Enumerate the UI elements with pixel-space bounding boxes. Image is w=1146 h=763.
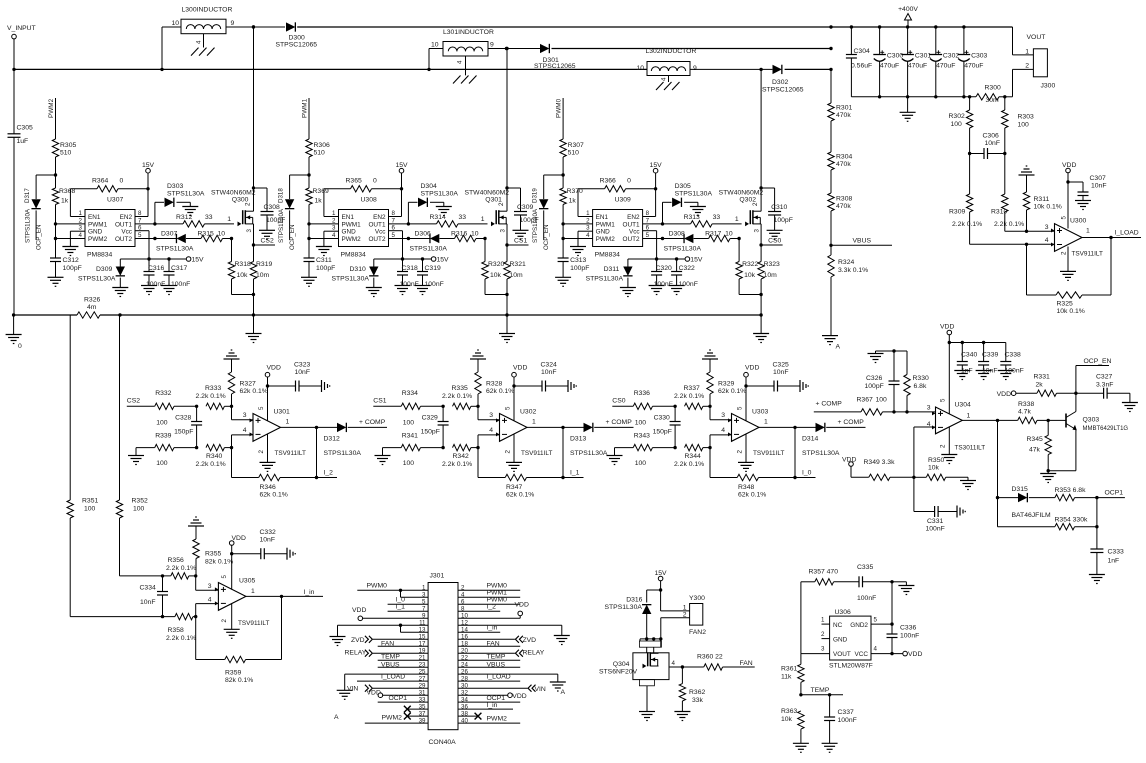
svg-text:100nF: 100nF — [838, 717, 857, 724]
svg-text:C325: C325 — [773, 362, 789, 369]
svg-text:3: 3 — [1045, 224, 1049, 231]
svg-text:FAN: FAN — [740, 660, 753, 667]
resistor R368 1k — [52, 188, 75, 258]
svg-text:4: 4 — [489, 427, 493, 434]
capacitor C308 100pF — [254, 188, 286, 239]
svg-text:+ COMP: + COMP — [359, 419, 386, 426]
resistor R305 510 — [52, 139, 76, 188]
svg-text:470uF: 470uF — [964, 62, 983, 69]
svg-text:C333: C333 — [1108, 549, 1124, 556]
svg-text:R354 330k: R354 330k — [1055, 517, 1088, 524]
capacitor C338 100nF — [998, 343, 1024, 380]
resistor R370 1k — [560, 188, 583, 258]
diode D308 — [643, 231, 702, 253]
svg-text:VIN: VIN — [347, 686, 358, 693]
svg-text:33: 33 — [713, 214, 721, 221]
svg-text:3: 3 — [332, 225, 336, 232]
svg-text:R311: R311 — [1034, 196, 1050, 203]
resistor R333 2.2k — [196, 385, 234, 410]
svg-text:VCC: VCC — [855, 651, 869, 658]
svg-text:150pF: 150pF — [174, 429, 193, 436]
wire VDD cap rail — [949, 341, 1006, 344]
pin numbers left — [419, 585, 426, 725]
svg-text:STPS1L30A: STPS1L30A — [167, 191, 205, 198]
svg-text:Vcc: Vcc — [629, 229, 640, 236]
svg-text:4.7k: 4.7k — [1018, 409, 1031, 416]
inductor L300 — [162, 7, 254, 70]
power VDD U300 — [1062, 162, 1076, 229]
power VDD stage — [744, 365, 760, 421]
ground C326 — [868, 349, 908, 362]
wire pin23 VBUS — [378, 662, 428, 669]
capacitor C328 150pF — [174, 405, 202, 450]
diode D318 OCP_EN — [277, 175, 309, 250]
svg-text:10: 10 — [431, 42, 439, 49]
svg-text:RELAY: RELAY — [345, 650, 367, 657]
resistor R334 100 — [401, 390, 443, 427]
net CS1 input — [373, 398, 401, 407]
svg-text:C326: C326 — [866, 375, 882, 382]
svg-text:100pF: 100pF — [570, 265, 589, 272]
ground pin3 — [62, 231, 85, 255]
svg-text:10nF: 10nF — [260, 537, 276, 544]
svg-text:62k 0.1%: 62k 0.1% — [718, 388, 746, 395]
resistor R323 10m — [758, 245, 780, 317]
svg-text:STPS1L30A: STPS1L30A — [332, 276, 370, 283]
svg-text:L300INDUCTOR: L300INDUCTOR — [182, 7, 233, 14]
svg-text:R361: R361 — [781, 666, 797, 673]
svg-text:VDD: VDD — [908, 651, 922, 658]
port RELAY left — [345, 650, 429, 657]
wire pin5 I_0 — [388, 597, 429, 605]
svg-text:3: 3 — [499, 229, 506, 233]
svg-text:R301: R301 — [836, 105, 852, 112]
svg-text:OCP_EN: OCP_EN — [36, 225, 43, 250]
svg-text:U307: U307 — [107, 197, 123, 204]
svg-text:A: A — [561, 689, 566, 696]
svg-text:VDD: VDD — [267, 365, 281, 372]
svg-text:10k: 10k — [928, 465, 940, 472]
svg-text:R338: R338 — [1018, 401, 1034, 408]
svg-text:VIN: VIN — [535, 686, 546, 693]
svg-text:2: 2 — [498, 202, 505, 206]
power VDD pin31 — [367, 689, 429, 697]
svg-text:C309: C309 — [517, 204, 533, 211]
wire +input — [232, 406, 254, 420]
svg-text:62k 0.1%: 62k 0.1% — [260, 492, 288, 499]
svg-text:CS1: CS1 — [514, 238, 527, 245]
svg-text:C317: C317 — [171, 265, 187, 272]
svg-text:R344: R344 — [685, 453, 701, 460]
svg-text:1: 1 — [251, 588, 255, 595]
capacitor C334 10nF — [140, 574, 169, 618]
svg-text:100nF: 100nF — [900, 633, 919, 640]
node OCP1 — [1097, 490, 1125, 498]
svg-text:R315: R315 — [198, 231, 214, 238]
capacitor C309 100pF — [507, 188, 539, 239]
capacitor C329 150pF — [421, 405, 449, 450]
svg-text:R316: R316 — [451, 231, 467, 238]
svg-text:33: 33 — [459, 214, 467, 221]
svg-text:5: 5 — [392, 232, 396, 239]
transistor Q303 MMBT6429LT1G — [1048, 393, 1128, 471]
svg-text:1: 1 — [481, 216, 485, 223]
svg-text:470uF: 470uF — [908, 62, 927, 69]
svg-text:R306: R306 — [314, 142, 330, 149]
wire pin18 FAN — [458, 641, 520, 648]
capacitor C317 100nF — [161, 259, 190, 295]
svg-text:U304: U304 — [955, 402, 971, 409]
ground U305 — [224, 603, 240, 638]
svg-text:PWM2: PWM2 — [382, 715, 403, 722]
svg-text:C339: C339 — [982, 352, 998, 359]
svg-text:2: 2 — [258, 450, 265, 454]
power 15V — [395, 162, 408, 217]
wire drain phase node — [252, 25, 255, 211]
resistor R358 2.2k — [166, 613, 197, 642]
wire pin28 I_LOAD — [458, 674, 520, 682]
wire pin39 PWM2 — [365, 715, 428, 724]
svg-text:10: 10 — [171, 20, 179, 27]
svg-text:A: A — [334, 714, 339, 721]
svg-text:510: 510 — [60, 150, 72, 157]
svg-text:2: 2 — [940, 444, 947, 448]
svg-text:2: 2 — [586, 217, 590, 224]
svg-text:9: 9 — [231, 20, 235, 27]
svg-text:R303: R303 — [1018, 114, 1034, 121]
svg-text:STPS1L30A: STPS1L30A — [605, 604, 643, 611]
power VDD stage — [265, 365, 281, 421]
resistor R348 62k feedback — [710, 426, 797, 499]
net + COMP input — [814, 401, 861, 412]
svg-text:U308: U308 — [361, 197, 377, 204]
svg-text:2: 2 — [245, 202, 252, 206]
wire pin6 Vcc — [643, 231, 657, 259]
svg-text:R347: R347 — [506, 484, 522, 491]
ground U304 — [941, 427, 957, 464]
svg-text:3: 3 — [489, 412, 493, 419]
svg-text:C328: C328 — [175, 415, 191, 422]
svg-text:D309: D309 — [96, 266, 112, 273]
svg-text:2.2k 0.1%: 2.2k 0.1% — [166, 565, 196, 572]
wire +input — [478, 406, 500, 420]
resistor R332 100 — [155, 390, 197, 427]
resistor R303 100 — [1002, 97, 1034, 154]
svg-text:10k: 10k — [744, 272, 756, 279]
svg-text:R334: R334 — [402, 390, 418, 397]
wire rail3 — [785, 68, 833, 71]
wire pin7 I_1 — [388, 604, 429, 612]
wire pin8 EN2 — [389, 216, 402, 218]
svg-text:2: 2 — [821, 631, 825, 638]
svg-text:4: 4 — [208, 597, 212, 604]
no-connect pin37 — [404, 713, 428, 720]
inductor L301 — [429, 29, 507, 84]
resistor R318 10k — [228, 239, 255, 297]
svg-text:100: 100 — [635, 460, 647, 467]
svg-text:100: 100 — [84, 506, 96, 513]
svg-text:PWM1: PWM1 — [342, 221, 362, 228]
svg-text:3: 3 — [79, 225, 83, 232]
mosfet Q304 STS6NF20V — [599, 641, 676, 721]
svg-text:7: 7 — [646, 217, 650, 224]
svg-text:3: 3 — [243, 412, 247, 419]
svg-text:2: 2 — [736, 450, 743, 454]
svg-text:STPS1L30A: STPS1L30A — [802, 450, 840, 457]
resistor R362 33k — [674, 667, 705, 721]
resistor R369 1k — [306, 188, 329, 258]
svg-text:GND: GND — [596, 229, 611, 236]
svg-text:STPS1L30A: STPS1L30A — [25, 208, 32, 243]
svg-text:CS2: CS2 — [261, 238, 274, 245]
svg-text:VDD: VDD — [513, 365, 527, 372]
power VDD pin10 — [458, 602, 529, 619]
svg-text:PWM0: PWM0 — [487, 583, 508, 590]
svg-text:100: 100 — [1018, 122, 1030, 129]
svg-text:I_LOAD: I_LOAD — [1115, 230, 1139, 237]
svg-text:510: 510 — [568, 150, 580, 157]
svg-text:TEMP: TEMP — [487, 654, 506, 661]
inductor L302 — [636, 48, 772, 90]
port VIN left — [347, 685, 428, 693]
svg-text:R314: R314 — [430, 214, 446, 221]
svg-text:STLM20W87F: STLM20W87F — [829, 663, 873, 670]
wire pin24 VBUS — [458, 662, 520, 669]
capacitor C336 100nF — [871, 582, 919, 654]
resistor R314 33 gate — [389, 214, 488, 227]
svg-text:C316: C316 — [148, 265, 164, 272]
svg-text:100nF: 100nF — [400, 281, 419, 288]
resistor R324 3.3k — [828, 255, 868, 336]
ground Q303 — [1040, 471, 1056, 483]
svg-text:R342: R342 — [453, 453, 469, 460]
node I_in — [246, 589, 323, 596]
svg-text:R355: R355 — [205, 551, 221, 558]
resistor R355 82k — [188, 517, 233, 576]
svg-text:C337: C337 — [838, 709, 854, 716]
svg-text:3.3nF: 3.3nF — [1096, 382, 1113, 389]
node VBUS — [829, 211, 892, 255]
svg-text:15V: 15V — [437, 257, 450, 264]
svg-text:100pF: 100pF — [865, 383, 884, 390]
wire pin14 I_in — [458, 625, 500, 633]
svg-text:10k 0.1%: 10k 0.1% — [1057, 308, 1085, 315]
capacitor C307 10nF — [1068, 175, 1107, 210]
svg-text:3: 3 — [586, 225, 590, 232]
capacitor C303 470uF — [958, 25, 988, 98]
svg-text:C320: C320 — [656, 265, 672, 272]
net PWM1 — [301, 98, 309, 139]
svg-text:PM8834: PM8834 — [341, 252, 367, 259]
diode D316 — [605, 590, 661, 639]
svg-text:PWM1: PWM1 — [487, 590, 508, 597]
resistor R325 10k feedback — [1027, 238, 1112, 316]
net FAN — [740, 660, 753, 667]
svg-text:TSV911ILT: TSV911ILT — [753, 450, 784, 457]
svg-text:OCP1: OCP1 — [389, 695, 408, 702]
svg-text:U300: U300 — [1070, 218, 1086, 225]
svg-text:82k 0.1%: 82k 0.1% — [225, 677, 253, 684]
capacitor C316 100nF — [141, 259, 165, 295]
svg-text:3.3k 0.1%: 3.3k 0.1% — [838, 267, 868, 274]
wire pin33 OCP1 — [378, 695, 428, 702]
svg-text:510: 510 — [314, 150, 326, 157]
power VDD pin9 — [352, 607, 428, 621]
svg-text:PWM2: PWM2 — [342, 236, 362, 243]
diode D303 — [155, 183, 205, 224]
resistor R353 6.8k — [1055, 487, 1099, 501]
svg-text:TSV911ILT: TSV911ILT — [275, 450, 306, 457]
capacitor C333 1nF — [1089, 498, 1124, 584]
svg-text:MMBT6429LT1G: MMBT6429LT1G — [1083, 426, 1129, 432]
svg-text:1k: 1k — [61, 198, 69, 205]
capacitor C304 — [846, 25, 872, 97]
svg-text:PWM2: PWM2 — [596, 236, 616, 243]
svg-text:R367: R367 — [857, 397, 873, 404]
connector J300 VOUT — [1013, 27, 1056, 97]
comparator U304 TS3011ILT — [927, 398, 986, 452]
power VDD U304 — [940, 324, 954, 414]
node I_0 — [795, 470, 816, 478]
svg-text:A: A — [836, 344, 841, 351]
svg-text:PWM0: PWM0 — [367, 583, 388, 590]
svg-text:STPS1L30A: STPS1L30A — [156, 246, 194, 253]
capacitor C322 100nF — [669, 259, 698, 295]
node I_2 — [317, 470, 338, 478]
wire +400V rail — [252, 25, 1013, 28]
svg-text:OUT2: OUT2 — [115, 236, 132, 243]
svg-text:8: 8 — [138, 210, 142, 217]
svg-text:STPSC12065: STPSC12065 — [762, 87, 804, 94]
wire input rail — [14, 68, 647, 71]
svg-text:3: 3 — [208, 583, 212, 590]
svg-text:C312: C312 — [63, 257, 79, 264]
diode D311 — [586, 259, 636, 297]
power 15V — [142, 162, 155, 217]
svg-text:10k: 10k — [490, 272, 502, 279]
resistor R367 100 — [857, 397, 936, 416]
mosfet Q300 STW40N60M2 — [211, 190, 256, 233]
svg-text:7: 7 — [138, 217, 142, 224]
resistor R357 470 — [801, 569, 859, 654]
diode D310 — [332, 259, 382, 297]
wire pin1 EN1 — [70, 216, 85, 218]
svg-text:EN1: EN1 — [596, 214, 609, 221]
svg-text:TS3011ILT: TS3011ILT — [955, 445, 986, 452]
svg-text:CON40A: CON40A — [429, 739, 457, 746]
resistor R317 10 — [694, 231, 741, 242]
capacitor C331 100nF — [914, 477, 965, 532]
svg-text:C318: C318 — [402, 265, 418, 272]
svg-text:TEMP: TEMP — [811, 687, 830, 694]
svg-text:FAN2: FAN2 — [689, 629, 706, 636]
svg-text:OUT1: OUT1 — [115, 221, 132, 228]
svg-text:1: 1 — [532, 419, 536, 426]
svg-text:R326: R326 — [84, 297, 100, 304]
svg-text:+ COMP: + COMP — [816, 401, 843, 408]
svg-text:R307: R307 — [568, 142, 584, 149]
resistor R341 100 — [401, 433, 443, 468]
resistor R330 6.8k — [904, 351, 929, 412]
capacitor C327 3.3nF — [1076, 374, 1138, 412]
svg-text:GND2: GND2 — [850, 622, 868, 629]
capacitor C325 10nF — [746, 362, 808, 393]
op-amp U300 TSV911ILT — [1045, 216, 1103, 258]
svg-text:62k 0.1%: 62k 0.1% — [506, 492, 534, 499]
svg-text:2: 2 — [221, 619, 228, 623]
svg-text:C335: C335 — [857, 564, 873, 571]
ground phase — [753, 315, 769, 343]
power VDD U306 — [871, 651, 922, 658]
svg-text:R312: R312 — [176, 214, 192, 221]
node V_INPUT — [7, 25, 36, 69]
ground A pin25 — [334, 674, 428, 721]
svg-text:1: 1 — [286, 419, 290, 426]
diode D309 — [78, 259, 128, 297]
diode D317 OCP_EN — [24, 175, 56, 250]
diode D302 — [762, 65, 804, 94]
wire U304 output — [962, 419, 1017, 422]
resistor R322 10k — [736, 239, 763, 297]
ground U300 — [1060, 247, 1076, 281]
diode D305 — [663, 183, 713, 224]
net OCP_EN — [1076, 358, 1112, 393]
port VIN right — [458, 685, 546, 694]
svg-text:TEMP: TEMP — [381, 654, 400, 661]
svg-text:100: 100 — [635, 420, 647, 427]
svg-text:470uF: 470uF — [880, 62, 899, 69]
svg-text:150pF: 150pF — [653, 429, 672, 436]
connector Y300 FAN2 — [683, 595, 706, 636]
svg-text:0: 0 — [120, 178, 124, 185]
svg-text:470k: 470k — [836, 112, 851, 119]
resistor R331 2k — [997, 374, 1078, 399]
svg-text:8: 8 — [392, 210, 396, 217]
svg-text:2.2k 0.1%: 2.2k 0.1% — [952, 221, 982, 228]
svg-text:R324: R324 — [838, 259, 854, 266]
svg-text:2.2k 0.1%: 2.2k 0.1% — [994, 221, 1024, 228]
wire pin1 EN1 — [578, 216, 593, 218]
svg-text:2: 2 — [79, 217, 83, 224]
svg-text:D315: D315 — [1012, 486, 1028, 493]
svg-text:R350: R350 — [928, 457, 944, 464]
gate driver U308 PM8834 — [332, 197, 395, 259]
svg-text:+ COMP: + COMP — [606, 419, 633, 426]
capacitor C306 10nF — [968, 133, 1007, 160]
svg-text:10nF: 10nF — [985, 140, 1001, 147]
svg-text:C336: C336 — [900, 625, 916, 632]
svg-text:2: 2 — [504, 450, 511, 454]
capacitor C318 100nF — [395, 259, 419, 295]
svg-text:R336: R336 — [634, 390, 650, 397]
ground stage — [506, 434, 522, 471]
svg-text:D306: D306 — [415, 231, 431, 238]
wire drain phase node — [759, 68, 762, 212]
svg-text:R352: R352 — [132, 498, 148, 505]
svg-text:STPS1L30A: STPS1L30A — [532, 208, 539, 243]
svg-text:C332: C332 — [260, 529, 276, 536]
ground R341 — [375, 448, 402, 465]
capacitor C312 100pF — [48, 257, 82, 286]
svg-text:9: 9 — [490, 42, 494, 49]
svg-text:1: 1 — [683, 605, 687, 612]
wire Q304 drain rail — [640, 637, 663, 641]
op-amp U302 TSV911ILT — [496, 406, 552, 457]
svg-text:0.56uF: 0.56uF — [851, 63, 872, 70]
svg-text:2.2k 0.1%: 2.2k 0.1% — [196, 461, 226, 468]
svg-text:R348: R348 — [738, 484, 754, 491]
resistor R363 10k — [781, 708, 809, 752]
